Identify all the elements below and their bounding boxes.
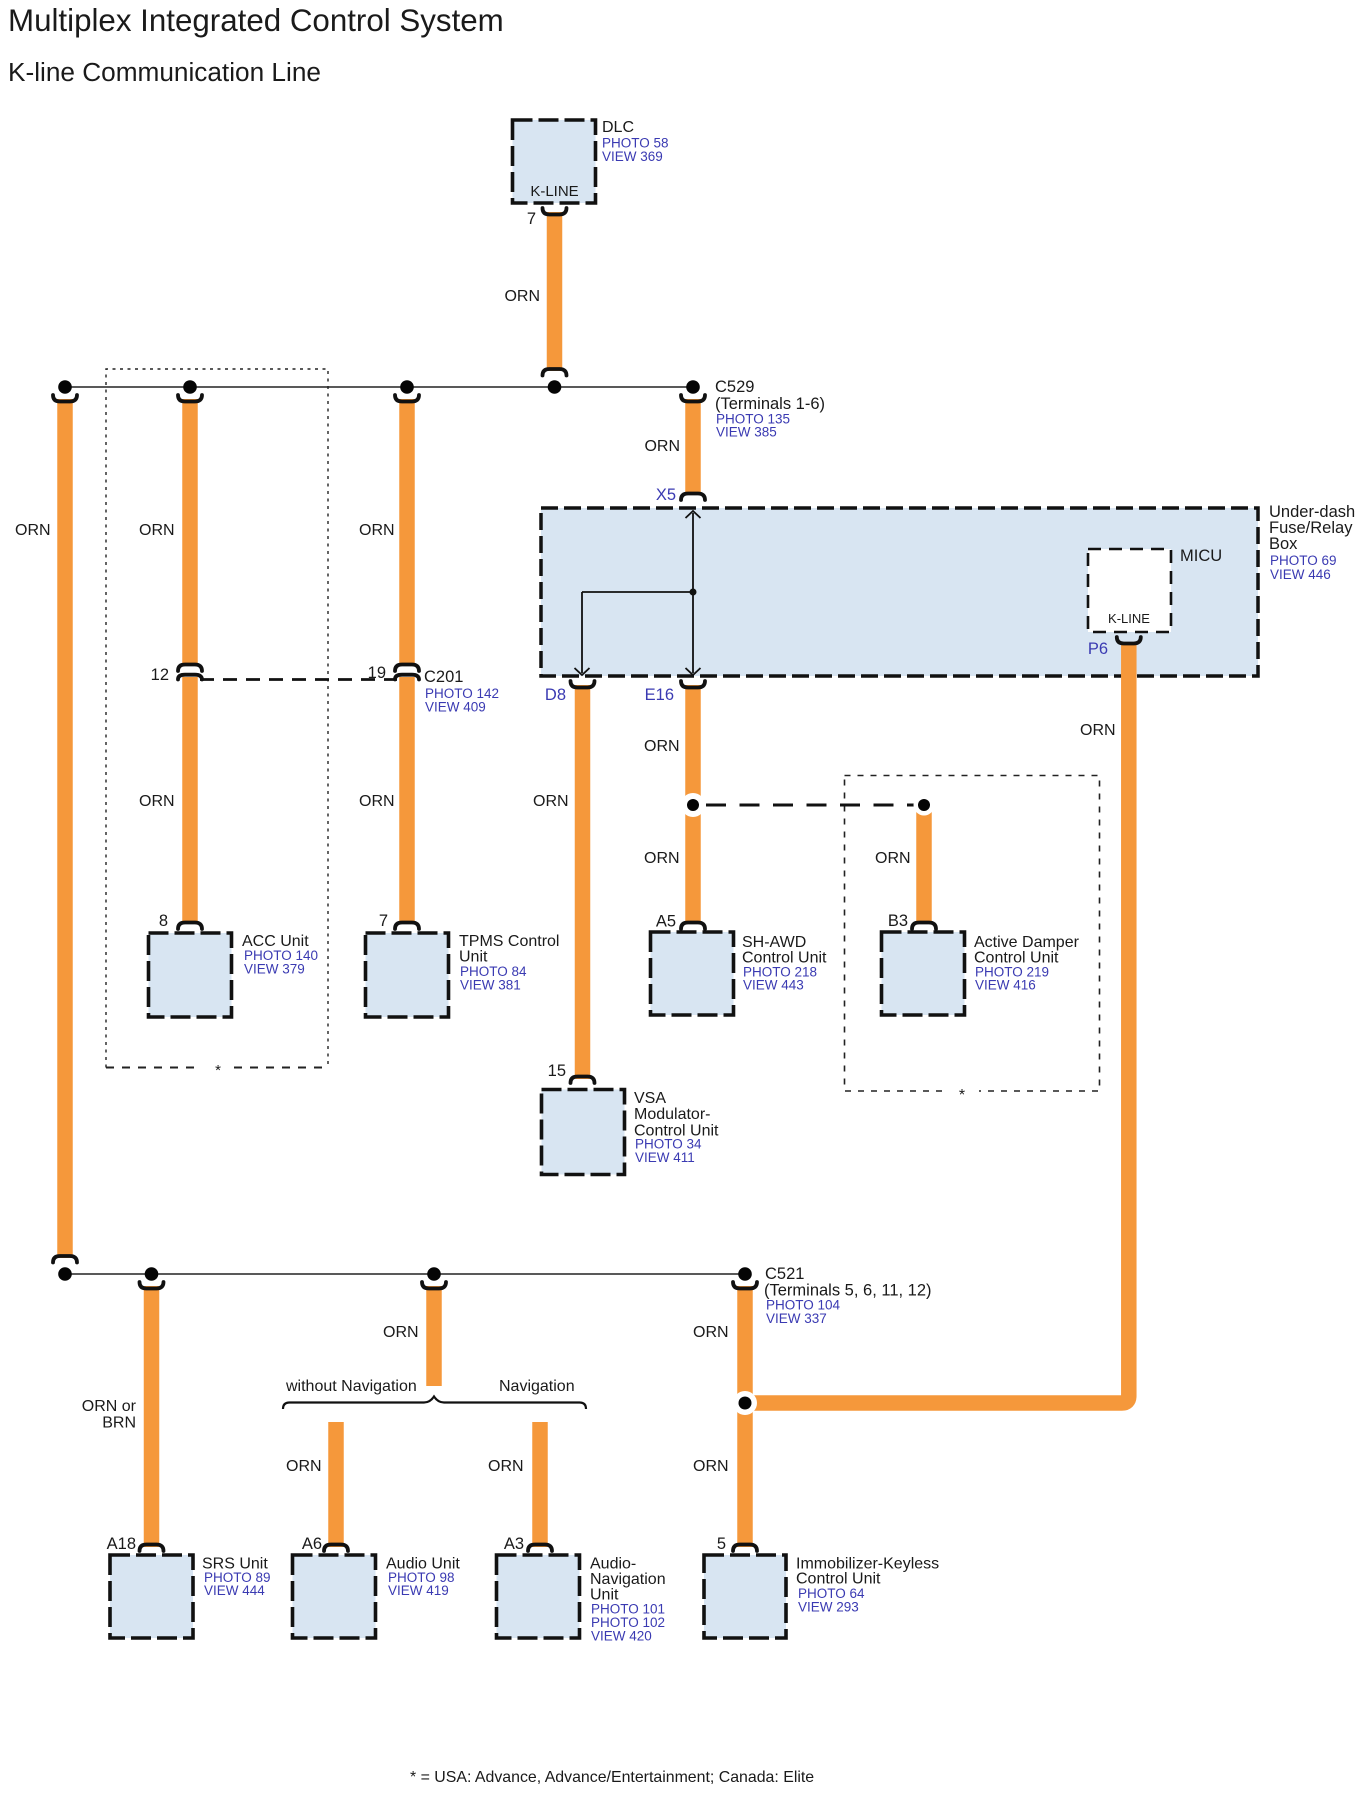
svg-text:VIEW 381: VIEW 381 xyxy=(460,978,521,993)
svg-text:TPMS Control: TPMS Control xyxy=(459,933,559,950)
svg-text:Navigation: Navigation xyxy=(499,1378,575,1395)
svg-text:D8: D8 xyxy=(545,686,566,704)
svg-text:ORN: ORN xyxy=(644,850,680,867)
svg-text:5: 5 xyxy=(717,1535,726,1553)
svg-text:K-LINE: K-LINE xyxy=(1108,611,1150,626)
svg-text:VSA: VSA xyxy=(634,1090,666,1107)
svg-text:ORN: ORN xyxy=(644,438,680,455)
svg-text:VIEW 444: VIEW 444 xyxy=(204,1583,265,1598)
svg-text:C529: C529 xyxy=(715,378,754,396)
svg-text:VIEW 443: VIEW 443 xyxy=(743,978,804,993)
svg-text:8: 8 xyxy=(159,912,168,930)
svg-text:VIEW 369: VIEW 369 xyxy=(602,149,663,164)
svg-text:ORN: ORN xyxy=(693,1324,729,1341)
svg-text:15: 15 xyxy=(548,1062,566,1080)
svg-text:VIEW 420: VIEW 420 xyxy=(591,1629,652,1644)
svg-text:A5: A5 xyxy=(656,913,676,931)
svg-text:ORN: ORN xyxy=(139,793,175,810)
svg-text:Box: Box xyxy=(1269,535,1298,553)
svg-text:E16: E16 xyxy=(645,686,674,704)
svg-text:12: 12 xyxy=(151,666,169,684)
svg-text:ORN: ORN xyxy=(139,522,175,539)
svg-text:C201: C201 xyxy=(424,668,463,686)
svg-text:MICU: MICU xyxy=(1180,547,1222,565)
svg-text:*: * xyxy=(959,1087,965,1104)
svg-text:without Navigation: without Navigation xyxy=(285,1378,417,1395)
svg-text:BRN: BRN xyxy=(102,1415,136,1432)
svg-text:ORN: ORN xyxy=(359,793,395,810)
svg-text:7: 7 xyxy=(527,210,536,228)
svg-text:A3: A3 xyxy=(504,1535,524,1553)
svg-text:VIEW 419: VIEW 419 xyxy=(388,1583,449,1598)
svg-text:7: 7 xyxy=(379,912,388,930)
svg-text:ORN: ORN xyxy=(533,793,569,810)
svg-text:VIEW 379: VIEW 379 xyxy=(244,962,305,977)
svg-text:Control Unit: Control Unit xyxy=(796,1571,881,1588)
svg-text:SH-AWD: SH-AWD xyxy=(742,934,806,951)
svg-text:Modulator-: Modulator- xyxy=(634,1106,710,1123)
svg-text:VIEW 411: VIEW 411 xyxy=(635,1150,695,1165)
svg-text:* = USA: Advance, Advance/Ent: * = USA: Advance, Advance/Entertainment;… xyxy=(410,1769,814,1786)
svg-text:VIEW 416: VIEW 416 xyxy=(975,978,1036,993)
svg-text:B3: B3 xyxy=(888,912,908,930)
svg-text:ORN: ORN xyxy=(383,1324,419,1341)
svg-text:19: 19 xyxy=(368,664,386,682)
svg-text:A6: A6 xyxy=(302,1535,322,1553)
svg-text:K-LINE: K-LINE xyxy=(530,183,578,200)
svg-text:P6: P6 xyxy=(1088,640,1108,658)
svg-text:X5: X5 xyxy=(656,486,676,504)
svg-text:C521: C521 xyxy=(765,1265,804,1283)
svg-text:Audio-: Audio- xyxy=(590,1556,636,1573)
svg-text:A18: A18 xyxy=(107,1535,136,1553)
svg-text:ORN: ORN xyxy=(1080,722,1116,739)
svg-text:ORN: ORN xyxy=(15,522,51,539)
svg-text:ORN: ORN xyxy=(693,1458,729,1475)
svg-text:ORN: ORN xyxy=(286,1458,322,1475)
svg-text:VIEW 446: VIEW 446 xyxy=(1270,567,1331,582)
svg-text:PHOTO 69: PHOTO 69 xyxy=(1270,553,1337,568)
svg-text:Navigation: Navigation xyxy=(590,1571,666,1588)
svg-text:ORN: ORN xyxy=(359,522,395,539)
svg-text:Unit: Unit xyxy=(459,949,488,966)
svg-text:Active Damper: Active Damper xyxy=(974,934,1080,951)
svg-text:VIEW 337: VIEW 337 xyxy=(766,1311,827,1326)
svg-text:(Terminals 1-6): (Terminals 1-6) xyxy=(715,395,825,413)
svg-text:ORN: ORN xyxy=(644,738,680,755)
svg-text:ORN: ORN xyxy=(488,1458,524,1475)
svg-text:VIEW 293: VIEW 293 xyxy=(798,1600,859,1615)
svg-text:VIEW 385: VIEW 385 xyxy=(716,425,777,440)
svg-text:VIEW 409: VIEW 409 xyxy=(425,700,486,715)
svg-text:DLC: DLC xyxy=(602,119,634,136)
svg-text:*: * xyxy=(215,1062,221,1079)
svg-text:Multiplex Integrated Control S: Multiplex Integrated Control System xyxy=(8,3,504,38)
svg-text:ORN: ORN xyxy=(504,288,540,305)
svg-text:ORN or: ORN or xyxy=(82,1398,137,1415)
svg-text:K-line Communication Line: K-line Communication Line xyxy=(8,57,321,87)
svg-text:ORN: ORN xyxy=(875,850,911,867)
